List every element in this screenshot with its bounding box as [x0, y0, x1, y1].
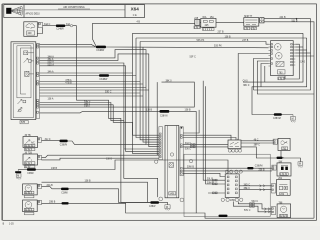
ECU inner circle — [170, 153, 173, 156]
svg-text:C38W: C38W — [27, 173, 34, 175]
feed 63.5 — [261, 64, 269, 87]
splice bottom center — [219, 215, 228, 217]
ECU riser to upper corners — [183, 110, 199, 133]
blower motor connector — [271, 207, 275, 215]
fan motor 1 circle — [25, 185, 32, 192]
logo connector fan lines — [11, 6, 21, 15]
783 right pin wires to loops — [285, 44, 299, 79]
relay 1050 pin strip right — [235, 176, 237, 194]
wire 53U C — [238, 202, 271, 209]
relay 1050 left wire 3 — [208, 192, 225, 194]
M38 relay plate box — [244, 18, 259, 27]
border left double line — [1, 4, 3, 220]
fuse hatch label below — [203, 28, 215, 31]
svg-text:138 B: 138 B — [51, 168, 57, 170]
ECU right wire 536 — [183, 146, 228, 148]
svg-text:C38W: C38W — [61, 192, 68, 194]
title divider — [24, 9, 125, 11]
svg-text:138 B: 138 B — [106, 158, 112, 160]
fan motor 1 connector — [38, 184, 42, 188]
wire turning down at x76 — [73, 26, 77, 101]
splice C38VN2 — [60, 140, 68, 143]
wire 53V C — [233, 202, 271, 212]
fan motor 1 box — [23, 184, 38, 195]
AC switch symbol — [26, 140, 31, 144]
ground M left — [17, 170, 19, 172]
svg-text:53W B: 53W B — [187, 167, 194, 169]
svg-text:C38VN: C38VN — [160, 115, 168, 117]
sensor 750 connector — [273, 139, 277, 144]
svg-text:34A A: 34A A — [48, 71, 54, 74]
ECU bottom connector circle left — [159, 197, 163, 201]
svg-text:138 B: 138 B — [146, 110, 152, 112]
783 below hatch label — [278, 77, 285, 80]
fan motor 2 circle — [25, 202, 32, 209]
svg-text:31J C: 31J C — [45, 139, 51, 141]
wire after splice — [109, 75, 136, 77]
CENTRAL_MODULE — [149, 54, 277, 217]
svg-text:138 B: 138 B — [185, 110, 191, 112]
vertical D to ECU — [143, 47, 159, 142]
wire rail 63 — [40, 63, 159, 149]
control panel inner box — [13, 44, 33, 118]
pin pair marks wire3 — [213, 192, 218, 194]
svg-text:20B B: 20B B — [49, 202, 56, 204]
svg-text:53F C: 53F C — [190, 57, 197, 59]
wire splice to ground — [159, 202, 168, 204]
wire 750 down to splice — [281, 151, 284, 158]
fan motor 2 box — [23, 200, 38, 212]
inline pins 53U — [250, 203, 252, 205]
riser relay to 783 pin — [238, 54, 268, 140]
ECU junction dot top right — [181, 127, 183, 129]
splice C38VM2 — [274, 113, 282, 116]
AC switch 36TB box — [23, 137, 38, 148]
783 motor circle 2 — [276, 53, 283, 60]
wire 138B to splice — [40, 111, 160, 113]
relay 1050 left wire 2 — [206, 86, 226, 184]
splice C38W m1 — [61, 188, 69, 191]
vertical A to ECU — [133, 33, 159, 135]
pressure switch 249 box — [24, 22, 38, 37]
control panel sub box — [17, 46, 31, 98]
pressostat 2 box — [277, 163, 291, 176]
fan motor 1 label — [24, 191, 34, 194]
relay 1050 top connector circles — [225, 170, 242, 173]
wire thermo pin2 — [42, 158, 159, 160]
vertical C to ECU — [140, 42, 159, 140]
fuse elements — [203, 21, 207, 23]
wire rail 90 — [40, 89, 149, 91]
splice C34BW — [96, 46, 106, 49]
vertical B to ECU — [136, 38, 159, 138]
svg-text:M: M — [17, 176, 19, 178]
fan motor 1 below hatch — [24, 195, 34, 197]
svg-text:53V C: 53V C — [244, 210, 251, 212]
ECU lower right wire 1 — [183, 167, 247, 169]
logo connector arc — [17, 6, 23, 15]
wire stair 2 — [40, 103, 158, 198]
wire rail 4TB A — [40, 81, 141, 83]
svg-text:C38VN: C38VN — [60, 145, 68, 147]
RELAY 1050 box — [225, 174, 239, 198]
logo box — [23, 5, 25, 18]
relay 515 top pin ticks — [231, 139, 238, 140]
wire thermo to ECU — [42, 155, 159, 157]
wire fuse to M38 — [216, 22, 244, 24]
ECU bottom label 1491 — [169, 192, 176, 195]
splice under 750 — [277, 157, 283, 159]
pressure switch symbol — [26, 24, 35, 29]
svg-text:53S PK: 53S PK — [214, 46, 222, 48]
relay 1050 connector circles — [221, 198, 243, 201]
M38 inner rows — [245, 20, 257, 24]
splice C38W under ECU — [150, 201, 159, 204]
connector strip — [36, 44, 39, 119]
ECU lower right wire 3 to relay2 — [183, 173, 225, 176]
separation marks 1 — [260, 185, 266, 187]
wire after splice m1 — [69, 189, 151, 203]
sensor 750 label — [282, 147, 288, 150]
svg-text:C38VM: C38VM — [273, 118, 281, 120]
svg-text:C38W: C38W — [149, 206, 156, 208]
wire rail 87 — [40, 87, 147, 89]
svg-text:M: M — [299, 164, 301, 166]
thermo below hatch — [24, 165, 35, 168]
wire rail 75.5 — [40, 75, 100, 77]
wire top pin to node — [40, 44, 96, 47]
relay 515 right wire 46 C — [241, 140, 273, 142]
wire rail 66 — [40, 66, 159, 152]
ECU 1491 box — [165, 126, 179, 198]
wire 20B B — [42, 202, 62, 204]
svg-text:C38VM: C38VM — [255, 166, 263, 168]
inline connector circle — [70, 25, 72, 27]
svg-text:4TB B: 4TB B — [65, 83, 72, 85]
sensor 750 box — [278, 138, 290, 150]
ECU right wire 34A — [183, 144, 228, 146]
svg-text:53S PK: 53S PK — [197, 40, 205, 42]
wire 20A B — [42, 187, 62, 189]
svg-text:1491: 1491 — [169, 194, 175, 196]
thermo symbol — [26, 157, 31, 161]
svg-text:536 C: 536 C — [185, 148, 191, 150]
svg-text:36 T2B: 36 T2B — [25, 153, 33, 155]
ground M right top — [292, 115, 294, 117]
783 label box — [278, 70, 286, 74]
wire rail 73 — [40, 72, 133, 74]
lamp symbol — [24, 51, 28, 55]
wire 53J B — [264, 22, 314, 218]
RELAY 515 box — [228, 140, 241, 149]
switch symbol with box — [24, 58, 28, 62]
svg-text:C E: C E — [133, 15, 137, 17]
switch arrow 2 — [18, 107, 23, 112]
relay 1050 pin strip left — [227, 176, 229, 194]
loop 138 rail down to ground — [252, 38, 307, 115]
svg-text:53U C: 53U C — [252, 201, 259, 203]
RIGHT_COLUMN — [219, 138, 303, 217]
relay 515 wire to splice under 750 — [241, 147, 277, 158]
wire rail 41 to module 783 — [140, 42, 268, 45]
wire 138 B to relay area — [36, 160, 228, 174]
wire 244 B — [254, 19, 311, 90]
wire rail 138B top — [136, 37, 307, 39]
separation marks 53U — [265, 208, 271, 210]
pressostat contacts — [281, 167, 284, 170]
wire stair 1 to ground splice — [76, 100, 150, 202]
AC switch below hatch — [24, 148, 35, 151]
AC switch connector — [38, 138, 42, 143]
svg-text:138 B: 138 B — [85, 181, 91, 183]
splice C38W left — [27, 168, 36, 171]
connector strip pins — [37, 44, 39, 113]
splice C34BR — [56, 25, 66, 28]
svg-text:15A: 15A — [210, 16, 215, 19]
svg-text:CA 0: CA 0 — [243, 79, 249, 82]
wire stair 4 long loop — [40, 82, 195, 107]
svg-text:57B: 57B — [21, 122, 26, 124]
fuse small hatch label — [194, 26, 200, 29]
thermo connector — [38, 155, 42, 160]
separation marks 2 — [260, 189, 266, 191]
splice C38W m2 — [62, 202, 69, 204]
svg-text:AIR CONDITIONING: AIR CONDITIONING — [63, 6, 85, 9]
svg-text:M: M — [292, 119, 294, 121]
junction dot — [296, 18, 298, 20]
fan motor 2 connector — [38, 200, 42, 204]
svg-text:30A: 30A — [202, 16, 207, 19]
sensor 750 symbol — [281, 141, 287, 145]
svg-text:M38 TT: M38 TT — [244, 16, 252, 18]
feed 58.5 — [254, 59, 269, 91]
wire after splice m2 — [69, 203, 197, 213]
connector pin box at 249 — [38, 22, 42, 27]
svg-text:53D A: 53D A — [48, 61, 55, 64]
wire 31J C — [42, 140, 60, 142]
LEFT_TOP_COMPONENT — [24, 22, 77, 100]
svg-text:APV2/3 DE10: APV2/3 DE10 — [26, 13, 41, 16]
panel internal bus — [20, 48, 33, 94]
BOTTOM_LEFT — [15, 135, 228, 215]
svg-text:20A B: 20A B — [47, 184, 54, 187]
svg-text:138 A: 138 A — [48, 98, 54, 101]
loop 237 rail down — [243, 33, 303, 82]
wire stair 3 — [40, 105, 159, 154]
ECU lower right wire 2 — [183, 170, 272, 172]
M38 hatch labels below — [244, 27, 250, 30]
ground M under ECU — [165, 205, 170, 209]
resistor pack box — [277, 180, 291, 196]
ECU side connector circle left — [155, 160, 158, 163]
svg-text:46 C: 46 C — [254, 139, 259, 141]
svg-text:M: M — [166, 207, 168, 209]
svg-text:38C 0: 38C 0 — [243, 85, 250, 87]
logo connector icon black square — [6, 8, 11, 14]
resistor pack connector — [271, 184, 275, 193]
wire pin2 to splice — [40, 46, 96, 48]
thermo switch 36T2B box — [23, 154, 38, 165]
blower motor label — [280, 214, 288, 217]
separation marks 53V — [265, 211, 271, 213]
783 motor circle 1 — [275, 44, 282, 51]
wire 4B rail to fusebox — [93, 23, 195, 46]
fan motor 2 label — [24, 208, 34, 211]
svg-text:53M B: 53M B — [207, 182, 214, 184]
wire 53S PK rail — [106, 46, 269, 49]
relay 515 right wire 38P — [241, 142, 273, 144]
relay 1050 left wire 1 — [203, 81, 225, 180]
CENTER_WIRES — [40, 22, 314, 219]
relay 515 connector circles — [228, 149, 241, 152]
svg-text:34A C: 34A C — [44, 23, 51, 26]
svg-text:36 TB: 36 TB — [25, 135, 32, 137]
thermo bottom hatch — [24, 162, 35, 165]
svg-text:53J B: 53J B — [292, 20, 298, 22]
svg-text:53E C: 53E C — [105, 91, 112, 93]
fuse small inner — [196, 21, 199, 23]
wire after splice sbend — [68, 141, 146, 144]
svg-text:237 B: 237 B — [242, 40, 248, 42]
svg-text:237 B: 237 B — [218, 32, 224, 34]
wire after splice — [65, 25, 70, 27]
wire down to ECU pin — [157, 82, 159, 155]
TOPRIGHT_COMPONENTS — [194, 16, 314, 218]
LEFT_MODULE — [11, 42, 40, 124]
wire to ground right — [283, 158, 301, 162]
feed 66 — [264, 66, 266, 82]
wire jog rail 1 — [40, 50, 159, 145]
ECU side connector circle right — [189, 159, 192, 162]
M38 side box — [260, 18, 264, 23]
783 right pin ticks — [293, 44, 295, 65]
wire loop from pin2 down and into box — [37, 28, 42, 34]
wire rail 96 — [40, 95, 144, 97]
wire rail 4TB B — [40, 83, 144, 85]
wire jog rail 2 — [40, 54, 159, 147]
svg-text:244 B: 244 B — [280, 17, 286, 19]
ECU right wire to relay top 1 — [183, 135, 231, 140]
svg-text:X64: X64 — [131, 7, 140, 12]
783 hatch box — [276, 62, 284, 67]
ECU right pin strip — [180, 127, 183, 176]
svg-text:C34BW: C34BW — [96, 50, 105, 52]
svg-text:CA 0: CA 0 — [300, 61, 306, 64]
pressostat label — [280, 173, 288, 176]
svg-text:1050: 1050 — [230, 200, 236, 202]
svg-text:C34BR: C34BR — [56, 29, 64, 31]
resistor pack label — [280, 193, 288, 196]
switch arrow 1 — [18, 99, 23, 104]
wire after C38VN down to bottom rail — [169, 111, 314, 218]
fan motor 2 below hatch — [24, 212, 34, 214]
splice C38VM — [247, 167, 253, 169]
ECU right wire to relay top 2 — [183, 138, 236, 140]
ECU pin column lines — [167, 126, 169, 198]
wire rail 237B top — [133, 32, 304, 34]
AC switch bottom hatch — [24, 144, 35, 147]
splice C38VN — [160, 110, 170, 113]
ECU hatch square — [169, 163, 174, 168]
wire relay to resistor 1 — [239, 185, 271, 187]
pin pair marks wire2 — [213, 183, 218, 185]
blower motor circle — [280, 206, 286, 212]
ground M mid right — [298, 162, 303, 165]
wire 138B lower to ECU area — [42, 182, 148, 202]
svg-text:258 B: 258 B — [259, 169, 265, 171]
wire rail 93 — [40, 92, 141, 94]
783 left pin ticks — [269, 44, 271, 66]
container box engine bay — [184, 154, 270, 216]
panel bottom label hatch — [20, 120, 28, 123]
wire ground to relay1050 — [18, 169, 27, 171]
svg-text:53G A: 53G A — [48, 63, 55, 66]
pin pair marks 34A wire — [191, 144, 196, 146]
fuse box 225 small — [195, 19, 200, 25]
ECU bottom connector circle right — [180, 198, 184, 202]
wire to pressostat connector — [254, 167, 272, 169]
control panel outer box — [11, 42, 36, 120]
svg-text:38K 0: 38K 0 — [166, 81, 173, 83]
pressostat connector — [272, 165, 276, 170]
title block outline — [4, 5, 145, 18]
relay 515 inner contacts — [230, 142, 240, 146]
wire 34A C from pressure switch — [43, 25, 56, 27]
svg-text:34A: 34A — [66, 23, 71, 26]
svg-text:138 C: 138 C — [84, 106, 90, 108]
fuse box 30A 15A — [201, 18, 216, 27]
MODULE 783 box — [271, 41, 294, 76]
svg-text:38P C: 38P C — [254, 145, 261, 147]
pin pair marks 536 wire — [191, 146, 196, 148]
wire between fuse boxes — [200, 22, 201, 24]
svg-text:1-35: 1-35 — [9, 224, 14, 226]
title underline — [58, 8, 90, 10]
splice C34BW2 — [99, 74, 109, 77]
svg-text:4 B: 4 B — [137, 22, 141, 24]
loop y94 — [257, 61, 314, 94]
ECU left pin strip — [159, 127, 163, 160]
svg-text:C34BW: C34BW — [99, 79, 108, 81]
TITLE_BLOCK — [4, 5, 145, 18]
blower motor box — [277, 204, 291, 218]
inline pins 53V — [250, 205, 252, 207]
svg-text:138 B: 138 B — [225, 36, 231, 38]
pressure switch label 249 hatch — [27, 31, 35, 35]
resistor hatch box — [25, 71, 29, 76]
X64 box — [124, 5, 126, 18]
resistor pack symbol — [279, 186, 282, 189]
wire relay to resistor 2 — [239, 189, 271, 191]
pin pair marks wire1 — [213, 179, 218, 181]
